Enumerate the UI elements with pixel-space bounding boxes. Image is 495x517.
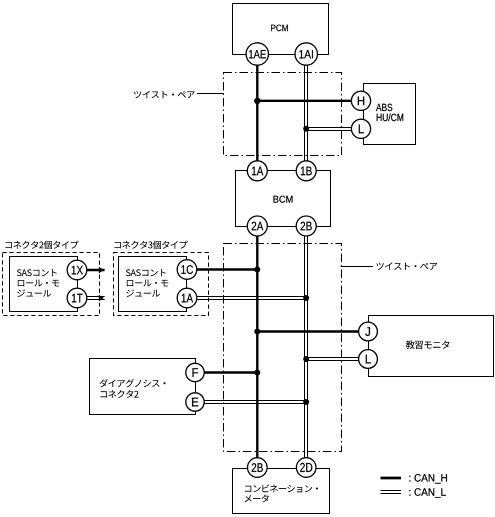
- legend CAN_H sample line: [381, 477, 402, 480]
- connector 1X (SAS 2-pc): [67, 260, 87, 280]
- SAS control module box (3-connector type): [119, 257, 187, 312]
- twisted pair label 1 leader: [197, 93, 224, 95]
- SAS module 2 label line 2: [127, 280, 169, 287]
- SAS module 2 label line 1: [126, 269, 166, 276]
- connector L (monitor): [359, 350, 378, 369]
- SAS module 1 label line 1: [17, 269, 57, 276]
- wire CAN_H branch to ABS H: [257, 100, 361, 102]
- PCM box: [233, 4, 329, 55]
- diagnosis connector 2 box: [90, 359, 196, 415]
- twisted pair label 1: [134, 91, 195, 99]
- legend CAN_L text: [409, 488, 445, 498]
- wire CAN_L BCM 2B to meter 2D: [305, 226, 308, 468]
- wire CAN_H branch from SAS 1C: [187, 268, 257, 270]
- connector 1C (SAS 3-pc): [177, 260, 197, 280]
- connector 2B (BCM bottom): [296, 216, 316, 236]
- wire CAN_H branch from diagnosis F: [195, 371, 257, 373]
- legend CAN_L sample line: [381, 491, 402, 494]
- ABS HU/CM box: [364, 84, 416, 145]
- combination meter box: [233, 469, 330, 514]
- connector E (diagnosis): [186, 393, 204, 411]
- junction CAN_L to ABS: [303, 126, 309, 132]
- junction CAN_H to monitor J: [254, 329, 260, 335]
- combination meter label line 2: [245, 495, 269, 503]
- wire CAN_H BCM 2A to meter 2B: [256, 226, 258, 468]
- junction CAN_H to SAS 1C: [254, 267, 260, 273]
- connector 2B (meter): [247, 458, 267, 478]
- connector L (ABS): [351, 119, 370, 138]
- junction CAN_L to SAS 1A: [303, 295, 309, 301]
- connector 2D (meter): [296, 458, 316, 478]
- wire CAN_H PCM 1AE to BCM 1A: [256, 54, 258, 171]
- junction CAN_H to ABS: [254, 98, 260, 104]
- connector 1A (SAS 3-pc): [177, 288, 197, 308]
- connector 2A (BCM bottom): [247, 216, 267, 236]
- connector 3-pc type caption: [114, 241, 187, 250]
- connector 1AI (PCM): [295, 43, 317, 65]
- SAS module 1 label line 2: [18, 280, 60, 287]
- wire CAN_H branch to monitor J: [257, 330, 368, 332]
- connector 1AE (PCM): [246, 43, 268, 65]
- connector H (ABS): [351, 91, 370, 110]
- wire CAN_H stub arrow from 1X: [86, 267, 105, 274]
- wire CAN_L stub arrow from 1T: [86, 295, 105, 302]
- junction CAN_L to monitor L: [303, 356, 309, 362]
- training monitor box: [369, 316, 494, 377]
- connector 1A (BCM top): [247, 161, 267, 181]
- training monitor label: [406, 340, 450, 349]
- connector 2-pc type caption: [5, 241, 78, 250]
- diagnosis box label line 1: [100, 379, 166, 388]
- wire CAN_L branch from SAS 1A: [187, 297, 306, 300]
- twisted pair label 2 leader: [341, 266, 374, 268]
- connector F (diagnosis): [186, 363, 204, 381]
- combination meter label line 1: [245, 484, 318, 492]
- SAS module 1 label line 3: [17, 289, 51, 297]
- wire CAN_L branch to ABS L: [306, 128, 361, 131]
- SAS control module box (2-connector type): [10, 257, 78, 312]
- junction CAN_H to diagnosis F: [254, 370, 260, 376]
- connector 1T (SAS 2-pc): [67, 288, 87, 308]
- SAS module 2 label line 3: [126, 289, 160, 297]
- wire CAN_L branch from diagnosis E: [195, 401, 306, 404]
- connector 3-pc type dashed group box: [114, 253, 209, 316]
- connector 1B (BCM top): [296, 161, 316, 181]
- diagnosis box label line 2: [100, 390, 138, 398]
- wire CAN_L branch to monitor L: [306, 358, 368, 361]
- legend CAN_H text: [409, 474, 447, 484]
- connector 2-pc type dashed group box: [3, 253, 100, 316]
- junction CAN_L to diagnosis E: [303, 399, 309, 405]
- twisted-pair boundary box 2 (middle): [224, 244, 342, 452]
- BCM box: [236, 171, 331, 227]
- wire CAN_L PCM 1AI to BCM 1B: [305, 54, 308, 171]
- twisted-pair boundary box 1 (top): [224, 73, 342, 156]
- connector J (monitor): [359, 322, 378, 341]
- twisted pair label 2: [376, 262, 437, 270]
